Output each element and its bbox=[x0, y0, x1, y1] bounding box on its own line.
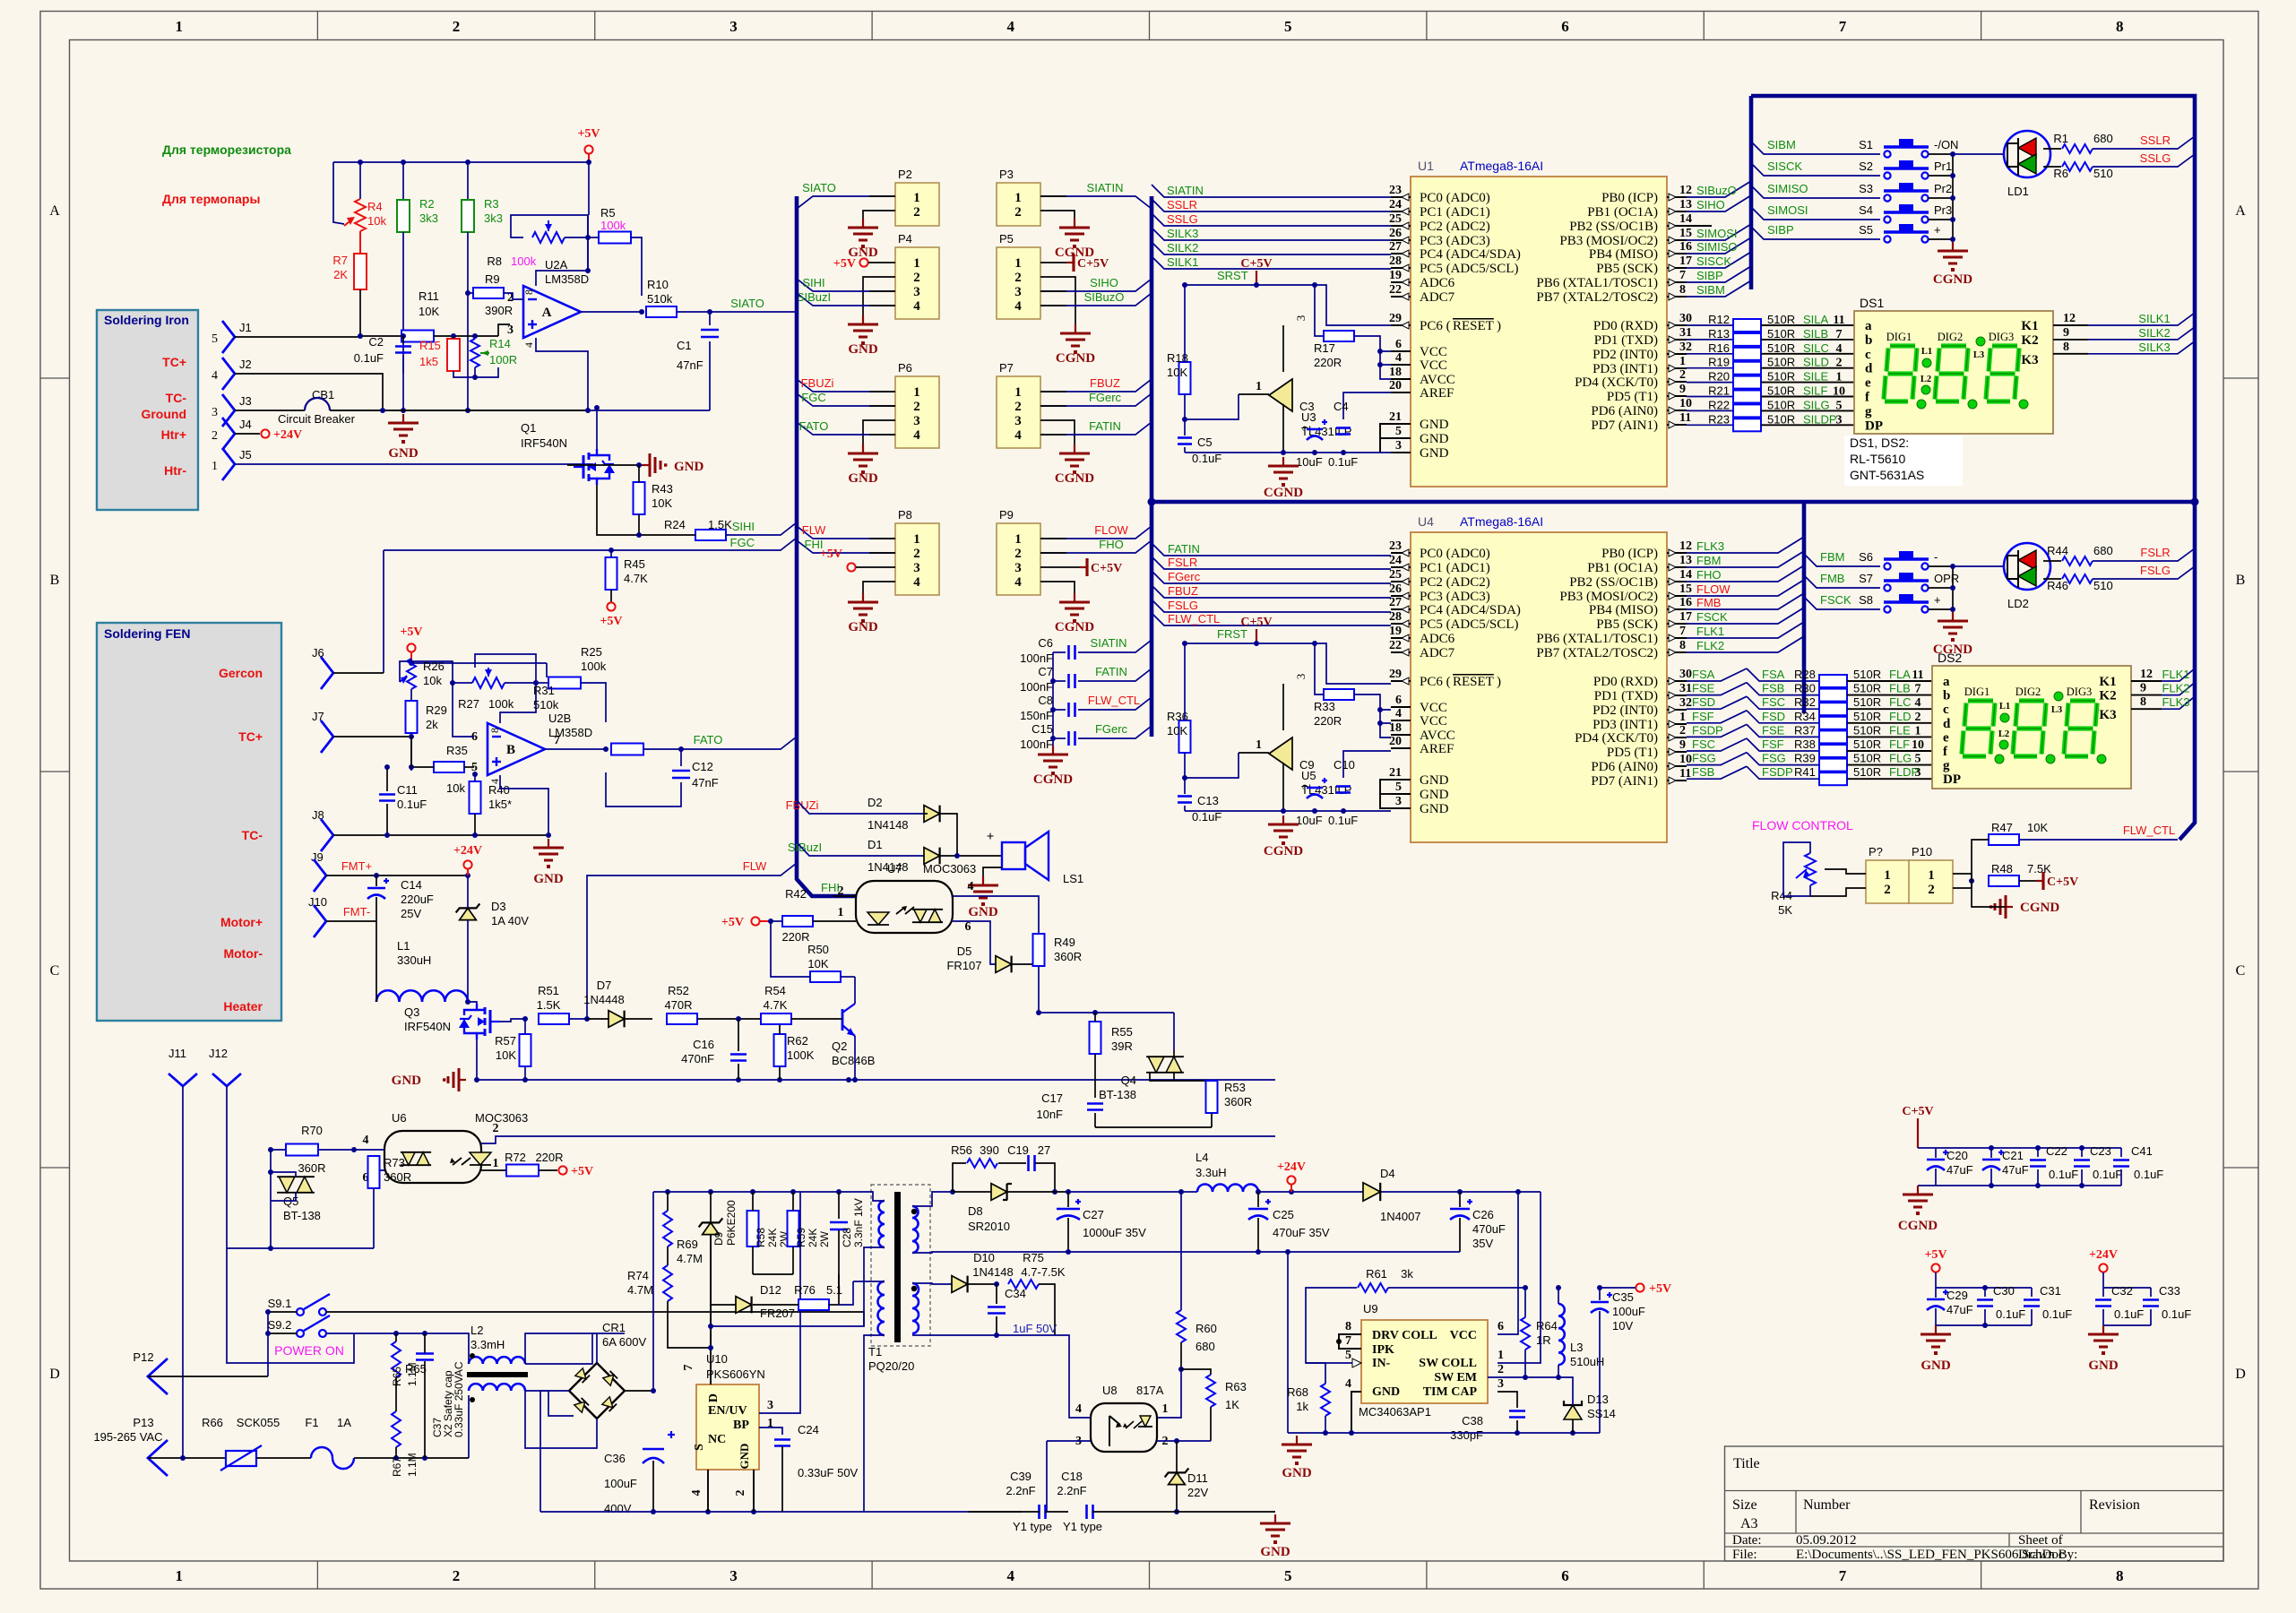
svg-text:510R: 510R bbox=[1853, 668, 1881, 681]
wire Q3 source bbox=[476, 1039, 478, 1080]
wires U1 left PC0-PC5 from bus bbox=[1152, 185, 1391, 197]
svg-text:6: 6 bbox=[1561, 18, 1569, 35]
soldering fen connector block bbox=[97, 623, 281, 1021]
svg-text:FSLG: FSLG bbox=[2140, 564, 2171, 577]
branch wires SIBM..SIBP from bus bbox=[1751, 142, 1880, 154]
svg-text:PB0 (ICP): PB0 (ICP) bbox=[1601, 191, 1658, 205]
resistor R52 bbox=[667, 1014, 697, 1024]
svg-text:27: 27 bbox=[1038, 1143, 1050, 1157]
svg-text:FSB: FSB bbox=[1692, 765, 1714, 779]
svg-text:5: 5 bbox=[1284, 1567, 1292, 1584]
svg-text:0.1uF: 0.1uF bbox=[2049, 1168, 2078, 1181]
wire U10 pin7 drain bbox=[710, 1246, 712, 1384]
bus diagonals to U4 nets bbox=[1152, 543, 1391, 556]
svg-text:D7: D7 bbox=[597, 979, 612, 992]
diode D10 1N4148 bbox=[952, 1276, 968, 1293]
svg-text:2: 2 bbox=[1679, 724, 1686, 737]
optocoupler U6 MOC3063 bbox=[384, 1131, 481, 1183]
svg-text:C26: C26 bbox=[1472, 1208, 1494, 1221]
svg-text:1: 1 bbox=[1162, 1402, 1169, 1416]
svg-text:FLW_CTL: FLW_CTL bbox=[2123, 824, 2175, 837]
svg-text:L3: L3 bbox=[1570, 1341, 1583, 1354]
capacitor C29 pol bbox=[1927, 1298, 1945, 1301]
svg-text:220R: 220R bbox=[1314, 356, 1342, 369]
svg-text:C9: C9 bbox=[1299, 758, 1315, 772]
connector P10 bbox=[1909, 860, 1953, 903]
pin U4.19 ADC6 bbox=[1391, 637, 1411, 639]
wire P10.2 bbox=[1953, 881, 1972, 888]
wire R4 top bbox=[359, 162, 361, 199]
svg-text:1N4448: 1N4448 bbox=[583, 993, 625, 1006]
resistor R6 bbox=[2043, 166, 2061, 168]
svg-text:10: 10 bbox=[1833, 385, 1845, 399]
svg-text:C+5V: C+5V bbox=[1077, 257, 1109, 271]
op-amp U2A bbox=[523, 286, 581, 338]
wire P8.1 FLW bbox=[797, 526, 895, 539]
resistor R7 bbox=[354, 254, 367, 289]
svg-text:C27: C27 bbox=[1083, 1208, 1104, 1221]
svg-text:7: 7 bbox=[682, 1365, 695, 1371]
svg-text:11: 11 bbox=[1833, 314, 1844, 327]
pin U4.3 GND bbox=[1391, 807, 1411, 809]
svg-text:OPR: OPR bbox=[1934, 572, 1959, 585]
svg-text:P2: P2 bbox=[898, 168, 912, 181]
svg-text:SILK2: SILK2 bbox=[2138, 326, 2170, 340]
svg-text:R25: R25 bbox=[581, 645, 602, 659]
wire +5V rail bbox=[333, 161, 589, 163]
capacitor C32 bbox=[2095, 1298, 2111, 1301]
svg-text:CGND: CGND bbox=[1033, 772, 1073, 787]
triac Q4 BT-138 bbox=[1148, 1057, 1164, 1073]
svg-text:SIMOSI: SIMOSI bbox=[1767, 203, 1808, 217]
svg-text:Y1 type: Y1 type bbox=[1063, 1520, 1102, 1533]
wire cap bank left bbox=[1052, 652, 1054, 746]
svg-text:SIBM: SIBM bbox=[1767, 138, 1796, 151]
svg-text:CGND: CGND bbox=[2020, 901, 2059, 915]
svg-text:SSLR: SSLR bbox=[1167, 198, 1197, 211]
svg-text:K3: K3 bbox=[2099, 708, 2116, 722]
wire pin2 bbox=[510, 298, 523, 300]
svg-text:0.1uF: 0.1uF bbox=[2042, 1307, 2072, 1321]
bus mid vertical bbox=[1150, 196, 1154, 737]
wire R2 down bbox=[402, 232, 404, 373]
pin U1.13 PB1 (OC1A) bbox=[1667, 211, 1687, 212]
ground GND smps sec bbox=[1274, 1514, 1276, 1523]
svg-text:1.5K: 1.5K bbox=[537, 998, 561, 1012]
svg-text:S5: S5 bbox=[1859, 223, 1873, 237]
svg-text:100k: 100k bbox=[511, 254, 537, 268]
svg-text:Y1 type: Y1 type bbox=[1013, 1520, 1052, 1533]
svg-text:0.1uF: 0.1uF bbox=[354, 351, 384, 365]
svg-text:C21: C21 bbox=[2002, 1149, 2024, 1162]
bus fen S branch vertical bbox=[1802, 502, 1807, 713]
pin U1.15 PB3 (MOSI/OC2) bbox=[1667, 239, 1687, 241]
resistor R57 bbox=[520, 1034, 531, 1066]
svg-text:FLB: FLB bbox=[1889, 682, 1911, 695]
svg-text:4.7M: 4.7M bbox=[627, 1283, 653, 1297]
svg-text:470R: 470R bbox=[664, 998, 692, 1012]
svg-text:SSLG: SSLG bbox=[1167, 212, 1198, 226]
pin U1.1 PD3 (INT1) bbox=[1667, 367, 1687, 369]
svg-text:R43: R43 bbox=[652, 482, 673, 496]
capacitor C21 pol bbox=[1982, 1159, 2000, 1161]
svg-text:TC-: TC- bbox=[242, 828, 263, 842]
svg-text:FSDP: FSDP bbox=[1692, 723, 1723, 737]
svg-text:R75: R75 bbox=[1023, 1251, 1044, 1264]
svg-text:4: 4 bbox=[1395, 351, 1402, 365]
ground GND fen bbox=[548, 839, 549, 848]
capacitor C39 2.2nF Y1 bbox=[1038, 1505, 1040, 1519]
wire P6.3 bbox=[863, 420, 895, 444]
svg-text:C+5V: C+5V bbox=[1091, 562, 1122, 575]
svg-text:PC5 (ADC5/SCL): PC5 (ADC5/SCL) bbox=[1420, 617, 1518, 632]
svg-text:C: C bbox=[2236, 963, 2246, 979]
DS1 right pins bbox=[2053, 324, 2088, 326]
svg-text:100k: 100k bbox=[600, 219, 626, 232]
svg-text:AVCC: AVCC bbox=[1420, 373, 1455, 387]
svg-text:TIM CAP: TIM CAP bbox=[1423, 1385, 1478, 1399]
svg-text:FSC: FSC bbox=[1692, 737, 1715, 751]
svg-text:C30: C30 bbox=[1993, 1284, 2015, 1298]
svg-text:DP: DP bbox=[1943, 772, 1961, 787]
ground GND caps 5v bbox=[1935, 1325, 1937, 1334]
svg-text:RESET: RESET bbox=[1453, 319, 1494, 333]
svg-text:FR107: FR107 bbox=[946, 959, 981, 972]
svg-text:C22: C22 bbox=[2046, 1144, 2067, 1158]
svg-text:FATO: FATO bbox=[694, 733, 723, 746]
svg-text:P8: P8 bbox=[898, 508, 912, 522]
svg-text:FSE: FSE bbox=[1762, 723, 1785, 737]
svg-text:FLF: FLF bbox=[1889, 737, 1910, 751]
svg-text:R69: R69 bbox=[677, 1238, 698, 1251]
wire SSLG bbox=[2093, 154, 2195, 167]
wire T1 primary bottom bbox=[711, 1247, 885, 1326]
svg-text:D5: D5 bbox=[957, 945, 972, 958]
svg-text:3: 3 bbox=[1014, 414, 1022, 428]
svg-text:RL-T5610: RL-T5610 bbox=[1850, 452, 1905, 466]
svg-text:2: 2 bbox=[913, 547, 920, 561]
svg-text:R73: R73 bbox=[384, 1156, 405, 1169]
svg-text:2: 2 bbox=[1915, 711, 1921, 724]
regulator U10 PKS606YN bbox=[696, 1384, 759, 1470]
svg-text:0.1uF: 0.1uF bbox=[397, 798, 427, 811]
svg-text:K1: K1 bbox=[2021, 319, 2038, 333]
wire U4 gnd bracket bbox=[1380, 780, 1391, 808]
pin U1.5 GND bbox=[1391, 437, 1411, 439]
svg-text:28: 28 bbox=[1389, 610, 1402, 624]
capacitor C3 pol bbox=[1307, 428, 1323, 431]
pin U4.14 PB2 (SS/OC1B) bbox=[1667, 581, 1687, 582]
wire R68 top bbox=[1306, 1363, 1325, 1384]
svg-text:1: 1 bbox=[1014, 191, 1022, 205]
svg-text:K3: K3 bbox=[2021, 353, 2038, 367]
svg-text:0.1uF: 0.1uF bbox=[1996, 1307, 2025, 1321]
pin U1.6 VCC bbox=[1391, 350, 1411, 352]
svg-text:3: 3 bbox=[913, 414, 920, 428]
svg-text:330uH: 330uH bbox=[397, 953, 431, 967]
svg-text:FLA: FLA bbox=[1889, 668, 1911, 681]
svg-text:L1: L1 bbox=[1921, 347, 1932, 357]
svg-text:PD3 (INT1): PD3 (INT1) bbox=[1593, 362, 1658, 376]
svg-text:PC3 (ADC3): PC3 (ADC3) bbox=[1420, 590, 1490, 604]
pin U4.16 PB4 (MISO) bbox=[1667, 608, 1687, 610]
svg-text:SIATIN: SIATIN bbox=[1087, 181, 1124, 194]
svg-text:1: 1 bbox=[1836, 371, 1843, 384]
svg-text:8: 8 bbox=[2063, 341, 2069, 354]
svg-text:IPK: IPK bbox=[1372, 1343, 1394, 1357]
resistor R13 510R bbox=[1687, 339, 1733, 341]
svg-text:A: A bbox=[2235, 203, 2246, 219]
svg-text:1: 1 bbox=[1915, 724, 1921, 737]
svg-text:+5V: +5V bbox=[833, 257, 856, 271]
resistor R22 510R bbox=[1687, 410, 1733, 411]
svg-text:CGND: CGND bbox=[1055, 471, 1094, 486]
wires U1 right PB nets to S-bus bbox=[1687, 181, 1751, 197]
svg-text:360R: 360R bbox=[1224, 1095, 1252, 1108]
svg-text:0.1uF: 0.1uF bbox=[1328, 814, 1358, 827]
bridge rectifier CR1 bbox=[569, 1363, 625, 1419]
svg-text:220R: 220R bbox=[781, 930, 809, 944]
capacitor C22 bbox=[2030, 1159, 2046, 1161]
speaker LS1 bbox=[1002, 842, 1025, 869]
svg-text:510R: 510R bbox=[1853, 737, 1881, 751]
svg-text:18: 18 bbox=[1389, 721, 1402, 735]
svg-text:PB2 (SS/OC1B): PB2 (SS/OC1B) bbox=[1569, 575, 1658, 590]
ground CGND caps bbox=[1052, 746, 1054, 755]
pin U4.29 PC6 (RESET) bbox=[1391, 680, 1411, 682]
svg-text:6: 6 bbox=[1498, 1320, 1504, 1333]
svg-text:C36: C36 bbox=[604, 1452, 626, 1465]
pin U1.19 ADC6 bbox=[1391, 281, 1411, 283]
svg-text:17: 17 bbox=[1679, 254, 1692, 268]
svg-text:100R: 100R bbox=[489, 353, 517, 367]
svg-text:L1: L1 bbox=[1999, 702, 2010, 712]
svg-text:PD2 (INT0): PD2 (INT0) bbox=[1593, 348, 1658, 362]
pin U4.32 PD2 (INT0) bbox=[1667, 709, 1687, 711]
svg-text:C25: C25 bbox=[1273, 1208, 1294, 1221]
resistor R37 510R bbox=[1687, 724, 1747, 737]
svg-text:D8: D8 bbox=[968, 1204, 983, 1218]
svg-text:4: 4 bbox=[1014, 299, 1022, 314]
wires U4 right PB nets to S-bus bbox=[1687, 537, 1804, 553]
svg-text:32: 32 bbox=[1679, 696, 1692, 710]
wire U2B pin8 bbox=[500, 683, 536, 723]
wire primary rail bbox=[653, 1191, 867, 1193]
svg-text:10nF: 10nF bbox=[1036, 1108, 1063, 1121]
svg-text:IN-: IN- bbox=[1372, 1357, 1391, 1370]
svg-text:8: 8 bbox=[522, 289, 535, 295]
svg-text:1: 1 bbox=[1256, 738, 1262, 752]
svg-text:SIBP: SIBP bbox=[1767, 223, 1794, 237]
wire R2 top bbox=[402, 162, 404, 200]
pin U1.30 PD0 (RXD) bbox=[1667, 324, 1687, 326]
resistor R64 1R bbox=[1521, 1317, 1530, 1350]
svg-text:GND: GND bbox=[1921, 1359, 1951, 1373]
svg-text:R60: R60 bbox=[1195, 1322, 1217, 1335]
svg-text:SR2010: SR2010 bbox=[968, 1220, 1010, 1233]
svg-text:C16: C16 bbox=[693, 1038, 714, 1051]
capacitor C15 bbox=[1067, 731, 1070, 746]
svg-text:0.1uF: 0.1uF bbox=[2162, 1307, 2191, 1321]
svg-text:Для термопары: Для термопары bbox=[162, 192, 260, 206]
wire P4.2 bbox=[863, 277, 895, 315]
svg-text:SIMISO: SIMISO bbox=[1696, 240, 1738, 254]
svg-text:1k: 1k bbox=[1296, 1400, 1308, 1413]
tvs diode D9 P6KE200 bbox=[703, 1222, 720, 1234]
diode D12 FR207 bbox=[736, 1297, 752, 1314]
power +24V smps bbox=[1287, 1176, 1295, 1184]
connector P3 bbox=[997, 183, 1040, 226]
svg-text:FSA: FSA bbox=[1762, 668, 1785, 681]
svg-text:SIBuzO: SIBuzO bbox=[1084, 290, 1125, 304]
svg-text:C+5V: C+5V bbox=[1902, 1105, 1933, 1118]
svg-text:FSD: FSD bbox=[1762, 710, 1785, 723]
svg-text:R24: R24 bbox=[664, 518, 686, 531]
svg-text:1: 1 bbox=[493, 1157, 499, 1170]
svg-text:510R: 510R bbox=[1767, 412, 1795, 426]
svg-text:1: 1 bbox=[1498, 1349, 1504, 1362]
pin U4.17 PB5 (SCK) bbox=[1667, 623, 1687, 625]
svg-text:1: 1 bbox=[1014, 256, 1022, 271]
svg-text:R67: R67 bbox=[391, 1457, 403, 1477]
svg-text:2: 2 bbox=[1014, 271, 1022, 285]
svg-text:P10: P10 bbox=[1912, 845, 1932, 858]
bus top right bbox=[1751, 96, 2195, 840]
wire J6 gercon bbox=[333, 672, 384, 674]
svg-text:U4: U4 bbox=[1418, 514, 1434, 529]
pin U4.7 PB6 (XTAL1/TOSC1) bbox=[1667, 637, 1687, 639]
pin U1.23 PC0 (ADC0) bbox=[1391, 196, 1411, 198]
svg-text:R2: R2 bbox=[419, 197, 435, 211]
svg-text:400V: 400V bbox=[604, 1502, 632, 1515]
resistor R50 bbox=[810, 971, 841, 982]
svg-text:FSA: FSA bbox=[1692, 668, 1715, 681]
svg-text:Htr-: Htr- bbox=[164, 463, 186, 478]
fuse F1 bbox=[311, 1447, 354, 1469]
svg-text:DP: DP bbox=[1865, 418, 1883, 433]
pin U4.10 PD6 (AIN0) bbox=[1667, 765, 1687, 767]
svg-text:25V: 25V bbox=[401, 907, 421, 920]
wire AREF U3 bbox=[1343, 392, 1391, 419]
svg-text:Title: Title bbox=[1733, 1456, 1760, 1471]
svg-text:C38: C38 bbox=[1462, 1414, 1483, 1428]
svg-text:SIMOSI: SIMOSI bbox=[1696, 227, 1738, 240]
svg-text:4.7-7.5K: 4.7-7.5K bbox=[1021, 1265, 1065, 1279]
svg-text:3: 3 bbox=[1014, 561, 1022, 575]
svg-text:8: 8 bbox=[2116, 1567, 2124, 1584]
svg-text:4: 4 bbox=[1345, 1377, 1351, 1391]
wire R58 R59 bottom bbox=[753, 1273, 793, 1275]
svg-text:FLE: FLE bbox=[1889, 723, 1911, 737]
svg-text:FGerc: FGerc bbox=[1168, 570, 1201, 583]
ground CGND U3 bbox=[1282, 457, 1284, 466]
connector P8 bbox=[895, 523, 939, 595]
svg-text:D10: D10 bbox=[973, 1251, 995, 1264]
inductor L1 bbox=[376, 990, 468, 1002]
svg-text:PD7 (AIN1): PD7 (AIN1) bbox=[1591, 774, 1658, 789]
svg-text:TC+: TC+ bbox=[162, 355, 186, 369]
svg-text:6A 600V: 6A 600V bbox=[602, 1335, 646, 1349]
wire SSLR bbox=[2093, 136, 2195, 149]
wire U9 pin8 pin7 bbox=[1339, 1334, 1361, 1349]
svg-text:S4: S4 bbox=[1859, 203, 1873, 217]
pin U4.15 PB3 (MOSI/OC2) bbox=[1667, 595, 1687, 597]
svg-text:8: 8 bbox=[1345, 1320, 1351, 1333]
wire top U5 bbox=[1185, 643, 1256, 644]
pin U1.4 VCC bbox=[1391, 364, 1411, 366]
svg-text:22: 22 bbox=[1389, 283, 1402, 297]
svg-text:U8: U8 bbox=[1102, 1384, 1118, 1397]
svg-text:SS14: SS14 bbox=[1587, 1407, 1616, 1420]
svg-text:D9: D9 bbox=[712, 1231, 725, 1246]
svg-text:SIHI: SIHI bbox=[732, 520, 755, 533]
capacitor C9 pol bbox=[1307, 787, 1323, 789]
svg-text:FATIN: FATIN bbox=[1089, 419, 1121, 433]
pin U1.20 AREF bbox=[1391, 392, 1411, 393]
svg-text:SILK1: SILK1 bbox=[1167, 255, 1198, 269]
svg-text:2: 2 bbox=[913, 205, 920, 220]
capacitor C23 bbox=[2074, 1159, 2090, 1161]
svg-text:PC3 (ADC3): PC3 (ADC3) bbox=[1420, 234, 1490, 248]
resistor R42 bbox=[782, 916, 813, 927]
resistor R67 bbox=[392, 1411, 401, 1447]
svg-text:GND: GND bbox=[1420, 802, 1449, 816]
resistor R41 510R bbox=[1687, 766, 1747, 779]
svg-text:0.33uF 250VAC: 0.33uF 250VAC bbox=[453, 1361, 465, 1437]
svg-text:1: 1 bbox=[211, 460, 218, 473]
svg-text:R11: R11 bbox=[419, 289, 439, 303]
svg-text:S8: S8 bbox=[1859, 593, 1873, 607]
wire J11 down bbox=[182, 1086, 184, 1458]
svg-text:C12: C12 bbox=[692, 760, 713, 773]
svg-text:FBUZ: FBUZ bbox=[1168, 584, 1198, 598]
svg-text:R22: R22 bbox=[1708, 398, 1730, 411]
resistor R62 bbox=[774, 1034, 786, 1066]
svg-text:PC2 (ADC2): PC2 (ADC2) bbox=[1420, 575, 1490, 590]
svg-text:PC5 (ADC5/SCL): PC5 (ADC5/SCL) bbox=[1420, 262, 1518, 276]
ground CGND U5 bbox=[1282, 815, 1284, 824]
svg-text:5: 5 bbox=[1915, 753, 1921, 766]
svg-text:22: 22 bbox=[1389, 639, 1402, 652]
wire P7.3 bbox=[1040, 420, 1075, 444]
wire L2 top to CR1 bbox=[525, 1333, 597, 1364]
svg-text:47uF: 47uF bbox=[1946, 1163, 1973, 1177]
svg-text:Pr3: Pr3 bbox=[1934, 203, 1952, 217]
tl431 U3 bbox=[1269, 379, 1292, 411]
svg-text:29: 29 bbox=[1389, 312, 1402, 325]
svg-text:3: 3 bbox=[729, 18, 738, 35]
pin U4.24 PC1 (ADC1) bbox=[1391, 566, 1411, 568]
svg-text:FSF: FSF bbox=[1762, 737, 1784, 751]
svg-text:b: b bbox=[1943, 689, 1950, 703]
svg-text:U9: U9 bbox=[1363, 1302, 1378, 1315]
wire R8 feedback bbox=[511, 215, 588, 237]
svg-text:FLK2: FLK2 bbox=[2162, 682, 2189, 695]
svg-text:+5V: +5V bbox=[400, 625, 422, 639]
power +5V R72 bbox=[558, 1166, 566, 1174]
svg-text:11: 11 bbox=[1912, 668, 1923, 682]
svg-text:5.1: 5.1 bbox=[826, 1283, 842, 1297]
svg-text:P5: P5 bbox=[999, 232, 1014, 246]
svg-text:GND: GND bbox=[388, 446, 419, 461]
resistor R1 bbox=[2043, 148, 2061, 150]
svg-text:1: 1 bbox=[913, 191, 920, 205]
pin U4.27 PC4 (ADC4/SDA) bbox=[1391, 608, 1411, 610]
svg-text:C29: C29 bbox=[1946, 1289, 1968, 1302]
svg-text:K2: K2 bbox=[2099, 689, 2116, 703]
svg-text:6: 6 bbox=[1395, 694, 1402, 707]
snubber R56 C19 bbox=[953, 1163, 966, 1192]
